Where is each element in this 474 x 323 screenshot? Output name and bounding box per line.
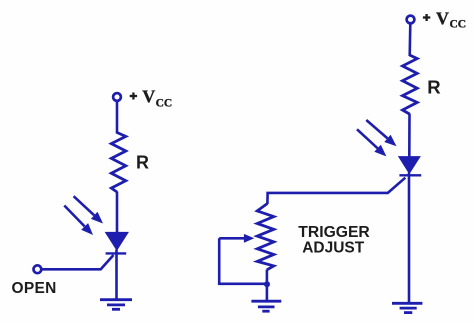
svg-text:V: V	[436, 9, 449, 29]
svg-text:ADJUST: ADJUST	[302, 239, 365, 256]
svg-text:OPEN: OPEN	[12, 280, 57, 297]
svg-text:CC: CC	[156, 97, 173, 109]
svg-text:V: V	[142, 87, 155, 107]
svg-text:CC: CC	[450, 19, 467, 31]
svg-text:R: R	[427, 77, 440, 97]
svg-text:R: R	[136, 153, 149, 173]
